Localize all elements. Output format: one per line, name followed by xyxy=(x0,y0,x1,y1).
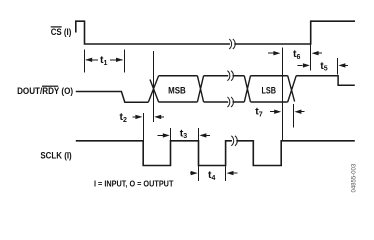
wire SCLK waveform xyxy=(76,141,355,166)
label DOUT/RDY (O) xyxy=(17,86,73,97)
node t3 left tick (SCLK rising edge extended up) xyxy=(170,128,172,141)
wire CS waveform xyxy=(76,21,355,44)
svg-text:04855-003: 04855-003 xyxy=(352,163,358,192)
svg-text:LSB: LSB xyxy=(262,85,277,96)
dimension t3 xyxy=(158,134,211,136)
node t4 right tick (SCLK rising edge extended down) xyxy=(225,164,227,181)
svg-text:CS (I): CS (I) xyxy=(51,27,72,37)
node MSB-valid reference line xyxy=(153,51,155,122)
svg-text:MSB: MSB xyxy=(168,85,186,96)
wire DOUT/RDY final high then three-state step xyxy=(296,76,355,86)
break mark on bus bottom rail xyxy=(227,97,233,107)
node transition X2 xyxy=(197,76,203,102)
node t1 left tick (CS falling edge) xyxy=(84,50,86,73)
node SCLK last-rising-edge reference line xyxy=(282,48,284,141)
dimension t2 xyxy=(133,116,164,118)
node transition X3 xyxy=(244,76,250,102)
wire MSB bus segment rails xyxy=(159,76,198,102)
node t7 right tick (LSB data invalid) xyxy=(293,104,295,128)
svg-text:I = INPUT, O = OUTPUT: I = INPUT, O = OUTPUT xyxy=(94,179,174,189)
label CS (I) xyxy=(51,26,72,37)
node t6 right tick (CS rising edge extended down) xyxy=(310,44,312,71)
node t1 right tick (DOUT/RDY active) xyxy=(124,50,126,73)
wire DOUT/RDY initial level and dip xyxy=(76,92,149,103)
dimension t6 xyxy=(268,52,322,54)
svg-text:SCLK (I): SCLK (I) xyxy=(40,150,71,160)
wire LSB bus segment rails xyxy=(251,76,288,102)
node t2 left tick (SCLK falling edge extended up) xyxy=(143,113,145,140)
break mark on CS line xyxy=(229,39,235,49)
svg-text:DOUT/RDY (O): DOUT/RDY (O) xyxy=(17,86,73,96)
dimension t7 xyxy=(270,111,305,113)
node transition X4 (bus close) xyxy=(288,76,297,102)
wire middle bus segment rails with gap xyxy=(204,76,245,102)
break mark on bus top rail xyxy=(227,71,233,81)
dimension t1 xyxy=(86,59,123,61)
break mark on SCLK line xyxy=(231,136,237,146)
node transition X1 (bus open / MSB valid) xyxy=(148,76,158,103)
node t5 right tick (DOUT three-state) xyxy=(337,58,339,74)
dimension t4 xyxy=(190,172,238,174)
dimension t5 xyxy=(298,64,349,66)
node t3/t4 shared tick (SCLK falling edge extended) xyxy=(198,128,200,181)
